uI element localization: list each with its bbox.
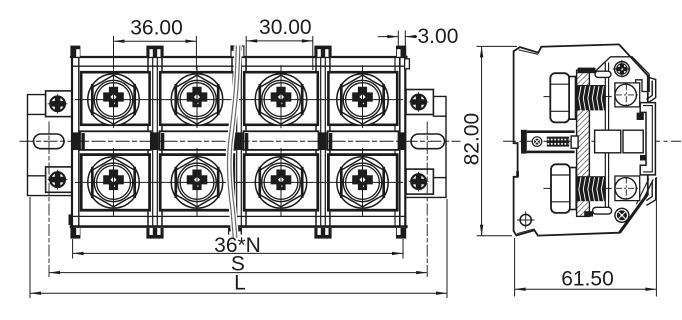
black clip mid right: [640, 155, 646, 161]
side body outline: [514, 44, 648, 235]
body left edge: [71, 56, 73, 228]
terminal crosshair r1c2: [155, 66, 239, 128]
lower hex screw cap: [551, 164, 570, 213]
terminal crosshair r1c4: [323, 66, 403, 128]
cell square r1c3: [244, 72, 318, 125]
lower screw washer: [570, 168, 576, 210]
svg-text:61.50: 61.50: [561, 268, 614, 291]
terminal screw r2c3: [255, 157, 306, 208]
mid screw head: [532, 137, 542, 147]
bottom tab left end: [70, 228, 80, 239]
body bottom inner line: [72, 215, 406, 217]
bottom slot: [593, 207, 612, 214]
rail bar cell1: [80, 131, 151, 150]
terminal screw r2c1: [88, 157, 139, 208]
lower D pocket: [615, 176, 640, 201]
bar cap 2: [161, 133, 164, 149]
cell square r2c2: [160, 155, 234, 211]
left edge black nub: [69, 214, 73, 225]
upper screw washer: [569, 77, 575, 120]
break line right: [231, 46, 240, 238]
top tab left end: [70, 46, 80, 57]
top tab sep1: [146, 46, 163, 57]
svg-text:30.00: 30.00: [259, 16, 312, 39]
dimension 61.50: [515, 177, 657, 297]
lower screw threads: [577, 176, 606, 201]
bottom tab sep3: [314, 228, 331, 239]
separator wall 3: [316, 57, 330, 227]
separator block band 3: [318, 132, 327, 150]
bottom left mounting hole: [517, 211, 535, 228]
cell square r1c4: [328, 72, 397, 125]
cell square r2c1: [81, 155, 149, 211]
svg-text:36.00: 36.00: [130, 16, 183, 39]
mid clamp U bracket: [521, 130, 575, 154]
right bracket centerline: [426, 122, 428, 278]
right bracket screw block bottom: [406, 169, 433, 194]
separator wall 2: [232, 57, 246, 227]
inner chamfer frame: [595, 57, 650, 74]
rail bottom hook: [646, 178, 655, 206]
terminal crosshair r1c3: [239, 66, 323, 128]
svg-text:L: L: [234, 272, 246, 295]
top slot: [595, 71, 611, 77]
svg-text:3.00: 3.00: [418, 25, 459, 48]
lower jaw inner diagonal: [636, 179, 648, 205]
top tab right end: [396, 46, 406, 57]
separator wall 1: [148, 57, 162, 227]
side main centerline: [503, 140, 681, 142]
left end block band: [71, 132, 79, 150]
left edge tick: [516, 171, 519, 177]
upper D pocket: [615, 83, 640, 107]
top-left beak inner line: [519, 50, 538, 55]
din rail inner line: [643, 106, 652, 172]
left bracket centerline: [48, 122, 50, 278]
dimension L: [30, 197, 447, 298]
mid pocket 2: [623, 130, 643, 153]
right bracket slot oval: [411, 134, 445, 149]
terminal screw r2c2: [171, 157, 222, 208]
break line left: [228, 46, 237, 238]
black square under J: [637, 113, 644, 120]
dimension S: [49, 252, 427, 275]
mid screw knurl: [547, 137, 569, 147]
cell square r2c3: [244, 155, 318, 211]
dimension 36*N: [73, 234, 403, 259]
upper hex screw cap: [550, 73, 569, 122]
lower right phillips screw: [615, 208, 629, 222]
terminal crosshair r2c2: [155, 149, 239, 217]
top tab sep2 posts: [231, 46, 244, 57]
body top inner line: [72, 65, 406, 67]
upper screw threads: [577, 85, 606, 110]
dimension 3.00: [378, 25, 458, 48]
upper cage wall pair: [605, 62, 608, 130]
terminal screw r2c4: [337, 157, 388, 208]
cell square r1c2: [160, 72, 234, 125]
din rail section: [640, 103, 655, 175]
left bracket screw block bottom: [46, 167, 72, 192]
bar cap 4: [329, 133, 332, 149]
body right edge: [404, 56, 406, 228]
left bracket screw block top: [46, 91, 72, 117]
bottom tab right end: [396, 228, 406, 239]
upper screw axis: [544, 96, 551, 98]
terminal crosshair r1c1: [76, 66, 156, 128]
body bottom edge: [71, 225, 406, 228]
left mounting bracket plate: [28, 95, 72, 196]
separator block band 1: [150, 132, 159, 150]
dimension 36.00: [114, 16, 197, 70]
main horizontal centerline: [20, 140, 460, 142]
rail top hook: [646, 77, 655, 103]
bracket screw left top: [48, 94, 67, 113]
rail bar cell3: [244, 131, 319, 150]
top tab sep3: [314, 46, 331, 57]
cell square r1c1: [81, 72, 149, 125]
right edge nub: [405, 59, 410, 69]
right mounting bracket plate: [406, 96, 446, 197]
terminal crosshair r2c3: [239, 149, 323, 217]
rail bar cell4: [328, 131, 399, 150]
rail bar cell2: [160, 131, 235, 150]
mid pocket 1: [595, 130, 621, 153]
bar cap 3: [245, 133, 248, 149]
lower cage wall pair: [605, 153, 608, 212]
bar cap 1: [81, 133, 84, 149]
mid screw cap piece: [571, 136, 578, 148]
terminal screw r1c2: [171, 74, 222, 125]
right bracket screw block top: [406, 90, 433, 115]
terminal screw r1c4: [337, 74, 388, 125]
bottom-left beak inner line: [517, 229, 535, 234]
bracket screw right bottom: [409, 172, 428, 191]
bottom tab sep2 posts: [228, 228, 242, 235]
right end wall: [395, 57, 400, 227]
terminal crosshair r2c1: [76, 149, 156, 217]
plate bottom foot: [584, 211, 593, 216]
bracket screw left bottom: [48, 170, 67, 189]
terminal screw r1c3: [255, 74, 306, 125]
lower jaw diagonal: [640, 179, 653, 206]
terminal crosshair r2c4: [323, 149, 403, 217]
bottom tab sep1: [146, 228, 163, 239]
cell square r2c4: [328, 155, 397, 211]
inner J hook: [636, 74, 650, 93]
plate top cap: [578, 68, 596, 74]
left bracket slot oval: [34, 134, 65, 149]
left end wall: [78, 57, 80, 227]
separator block band 2: [234, 132, 243, 150]
terminal screw r1c1: [88, 74, 139, 125]
svg-text:82.00: 82.00: [461, 113, 484, 166]
dimension 82.00: [461, 46, 518, 235]
bracket screw right top: [409, 93, 428, 112]
right end block band: [399, 132, 406, 150]
hatched section plate: [577, 70, 590, 216]
body top edge: [71, 56, 406, 58]
lower screw axis: [544, 187, 552, 189]
dimension 30.00: [246, 16, 313, 70]
upper right phillips screw: [613, 60, 631, 78]
bottom right thick chamfer: [620, 194, 648, 233]
